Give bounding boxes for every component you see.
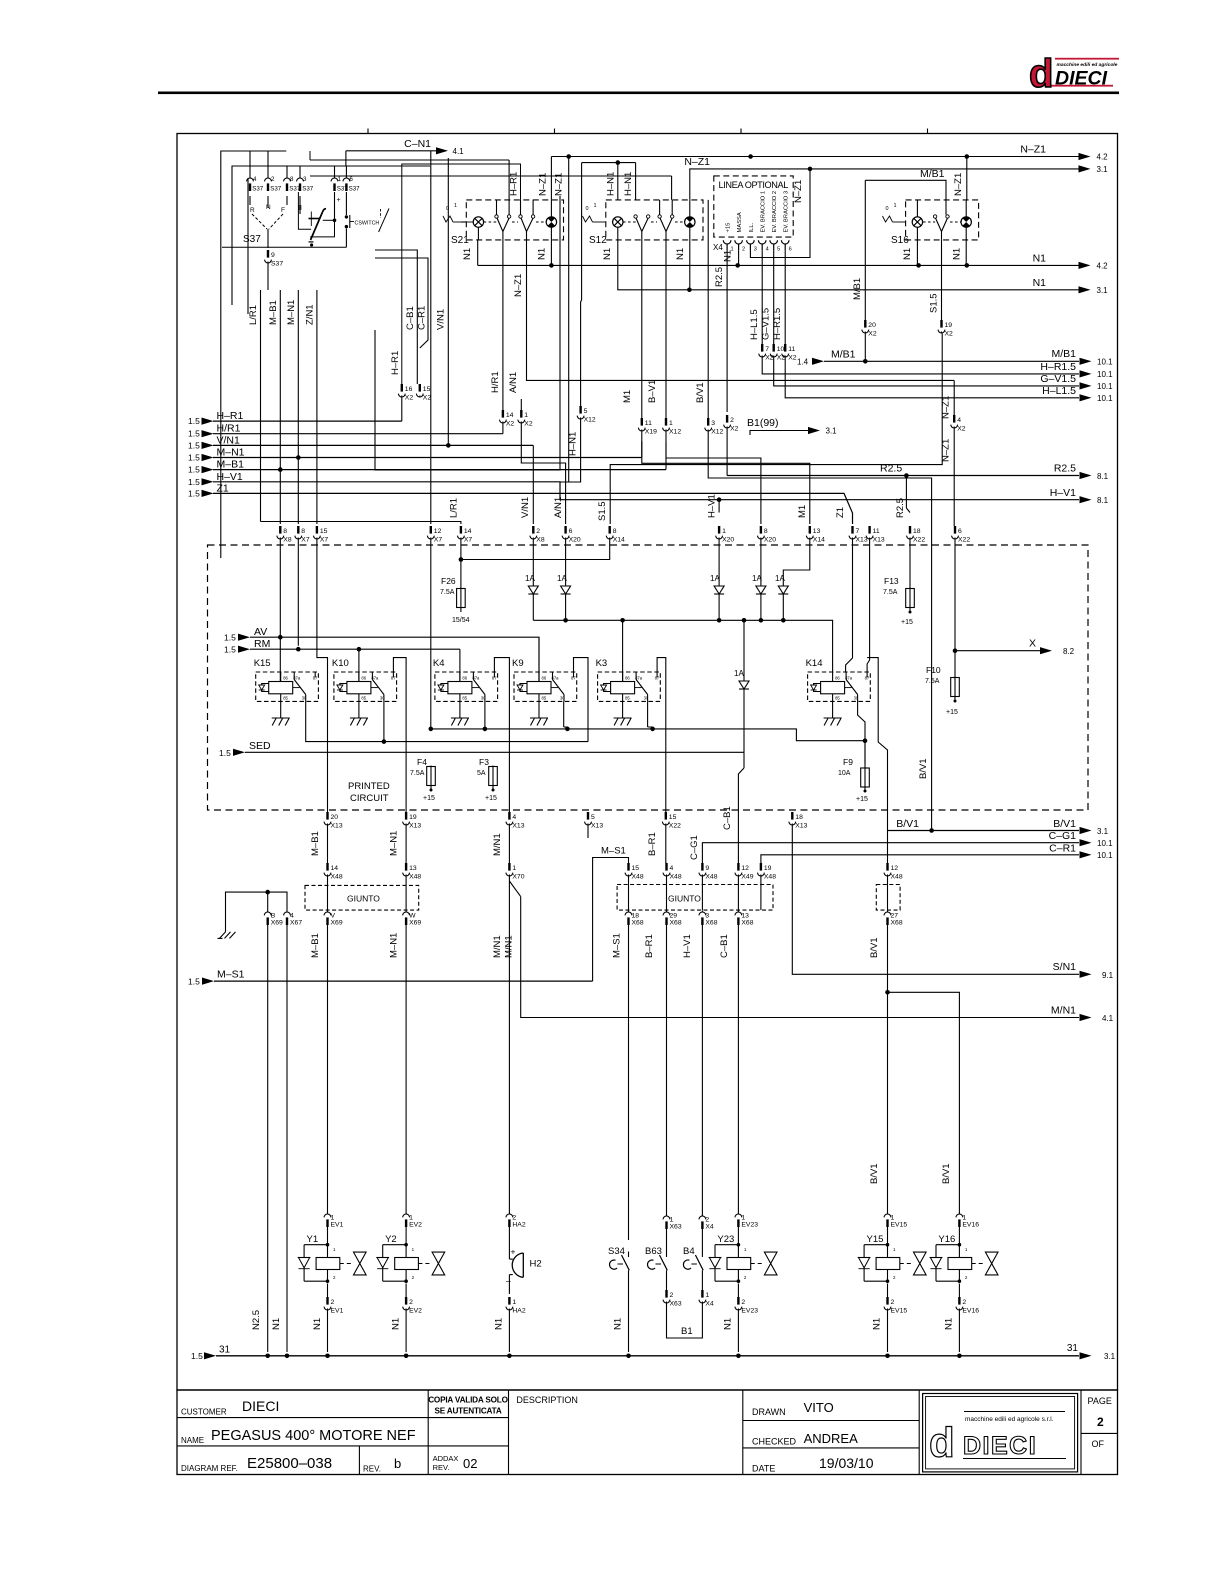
svg-text:B/V1: B/V1 <box>918 758 929 779</box>
pin 2 EV16 <box>944 1284 980 1353</box>
relay K14 <box>806 658 871 701</box>
pin 7 X13 <box>835 507 868 672</box>
svg-text:1: 1 <box>454 203 457 209</box>
svg-text:10.1: 10.1 <box>1097 370 1113 379</box>
svg-text:M–B1: M–B1 <box>217 459 245 471</box>
svg-text:2: 2 <box>891 1299 895 1306</box>
wire N1 to 4.2 <box>478 253 1108 271</box>
svg-text:B/V1: B/V1 <box>869 1163 880 1184</box>
giunto box left <box>305 885 419 910</box>
lamp unit S21 box <box>451 200 564 246</box>
svg-text:30: 30 <box>644 696 649 701</box>
svg-text:S21: S21 <box>451 235 469 246</box>
wire N-Z1 from S21 down <box>513 240 954 381</box>
svg-text:1.5: 1.5 <box>188 429 200 439</box>
svg-text:1A: 1A <box>557 574 567 583</box>
svg-text:N2.5: N2.5 <box>251 1310 262 1330</box>
svg-text:X63: X63 <box>670 1224 682 1231</box>
svg-text:+: + <box>511 1247 516 1257</box>
wire C-R1 to 10.1 <box>761 843 1113 864</box>
wire MASSA to N1 <box>723 250 739 266</box>
svg-text:X69: X69 <box>331 920 343 927</box>
ground K3 <box>614 701 632 725</box>
svg-text:4.2: 4.2 <box>1097 153 1109 162</box>
svg-text:N1: N1 <box>675 248 686 260</box>
svg-text:86: 86 <box>542 676 547 681</box>
wire C-B1 through PCB edge <box>722 752 744 863</box>
svg-text:EV15: EV15 <box>891 1222 908 1229</box>
svg-text:H–R1.5: H–R1.5 <box>772 308 783 340</box>
lever switch II/I <box>298 192 341 247</box>
pin 13 X14 <box>783 505 825 586</box>
svg-text:13: 13 <box>409 865 417 872</box>
svg-text:X7: X7 <box>301 536 310 543</box>
svg-text:1.5: 1.5 <box>191 1351 203 1361</box>
pin 18 X22 <box>895 476 925 589</box>
svg-text:X12: X12 <box>711 428 723 435</box>
wire diode output bus <box>533 618 832 682</box>
wire R2.5 from X4 pin1 <box>714 250 727 412</box>
svg-text:1: 1 <box>669 420 673 427</box>
svg-text:31: 31 <box>1067 1343 1079 1354</box>
svg-text:M1: M1 <box>797 505 808 518</box>
svg-text:M–B1: M–B1 <box>310 933 321 958</box>
relay K4 <box>433 658 498 701</box>
svg-text:2: 2 <box>705 1216 709 1223</box>
wire C-N1 riser mid <box>430 151 432 524</box>
svg-text:HA2: HA2 <box>512 1222 525 1229</box>
svg-text:+15: +15 <box>856 796 868 803</box>
svg-text:15: 15 <box>669 814 677 821</box>
svg-text:B/V1: B/V1 <box>941 1163 952 1184</box>
svg-text:N–Z1: N–Z1 <box>538 173 549 196</box>
svg-text:6: 6 <box>789 247 792 253</box>
wire N1 to 3.1 <box>617 277 1108 295</box>
svg-text:1.5: 1.5 <box>224 645 236 655</box>
svg-text:H/R1: H/R1 <box>490 371 501 393</box>
svg-text:VITO: VITO <box>804 1400 834 1415</box>
svg-text:19: 19 <box>409 814 417 821</box>
svg-text:X13: X13 <box>591 822 603 829</box>
pin 1 X12 <box>663 418 761 524</box>
pin 2 EV2 <box>391 1284 423 1353</box>
svg-text:15: 15 <box>632 865 640 872</box>
svg-text:19/03/10: 19/03/10 <box>819 1455 874 1471</box>
svg-text:18: 18 <box>795 814 803 821</box>
svg-text:A/N1: A/N1 <box>508 372 519 393</box>
wire S37 verticals to PCB <box>248 290 461 524</box>
wire B/V1 riser from X12 <box>695 382 932 830</box>
svg-text:M/N1: M/N1 <box>504 935 515 958</box>
svg-text:1: 1 <box>524 412 528 419</box>
svg-text:18: 18 <box>913 528 921 535</box>
svg-text:H–V1: H–V1 <box>1050 487 1076 499</box>
svg-text:EV15: EV15 <box>891 1307 908 1314</box>
svg-text:0: 0 <box>586 206 589 212</box>
svg-text:14: 14 <box>464 528 472 535</box>
arrow M/B1 10.1 <box>1051 348 1113 367</box>
svg-text:X48: X48 <box>331 873 343 880</box>
svg-text:7.5A: 7.5A <box>883 589 898 596</box>
svg-text:3: 3 <box>303 176 307 183</box>
svg-text:V/N1: V/N1 <box>520 497 531 518</box>
lamp S21 left <box>466 217 496 227</box>
svg-text:16: 16 <box>405 386 413 393</box>
svg-text:Y1: Y1 <box>307 1234 319 1245</box>
valve Y2 <box>376 1234 444 1283</box>
pin W X69 <box>389 911 422 1214</box>
svg-text:H–V1: H–V1 <box>217 471 243 483</box>
pin 15 X22 <box>647 812 681 863</box>
svg-text:6: 6 <box>569 528 573 535</box>
svg-text:X2: X2 <box>506 420 515 427</box>
svg-text:N1: N1 <box>462 248 473 260</box>
svg-text:1: 1 <box>409 1214 413 1221</box>
svg-text:87: 87 <box>655 676 660 681</box>
wire B/V1 riser K14 <box>867 658 887 863</box>
svg-text:7: 7 <box>856 528 860 535</box>
svg-text:X7: X7 <box>320 536 329 543</box>
svg-text:GIUNTO: GIUNTO <box>347 894 380 904</box>
pin 8 X14 <box>461 465 943 560</box>
svg-text:12: 12 <box>434 528 442 535</box>
svg-text:15: 15 <box>320 528 328 535</box>
pin 14 X48 <box>324 863 343 910</box>
lamp unit S16 box <box>891 200 979 246</box>
pin 1 X70 <box>506 863 525 1213</box>
svg-text:M–S1: M–S1 <box>601 846 626 857</box>
svg-text:M–N1: M–N1 <box>389 831 400 856</box>
pin 13 X68 <box>719 911 754 1214</box>
pin 4 X67 <box>271 911 302 1353</box>
diode 1A a <box>525 574 538 620</box>
svg-text:X8: X8 <box>536 536 545 543</box>
svg-text:5A: 5A <box>477 770 486 777</box>
wire S1.5 from S16 <box>929 240 942 320</box>
svg-text:M–N1: M–N1 <box>389 933 400 958</box>
svg-text:DRAWN: DRAWN <box>752 1407 786 1417</box>
bus V/N1 <box>188 434 533 524</box>
svg-text:CIRCUIT: CIRCUIT <box>350 793 389 804</box>
svg-text:0: 0 <box>886 206 889 212</box>
svg-text:14: 14 <box>331 865 339 872</box>
svg-text:19: 19 <box>945 322 953 329</box>
pin 11 X2 <box>782 344 1079 398</box>
svg-text:2: 2 <box>742 247 745 253</box>
svg-text:X8: X8 <box>283 536 292 543</box>
svg-text:Y16: Y16 <box>938 1234 955 1245</box>
svg-text:8: 8 <box>764 528 768 535</box>
svg-text:5: 5 <box>591 814 595 821</box>
svg-text:31: 31 <box>219 1345 231 1356</box>
svg-text:20: 20 <box>868 322 876 329</box>
svg-text:X68: X68 <box>632 920 644 927</box>
svg-text:M/B1: M/B1 <box>852 278 863 300</box>
svg-text:B: B <box>271 912 276 919</box>
svg-text:DIAGRAM REF.: DIAGRAM REF. <box>181 1464 238 1473</box>
svg-text:9: 9 <box>705 865 709 872</box>
svg-text:30: 30 <box>560 696 565 701</box>
wire M1 from S12 <box>622 240 642 418</box>
bus H-V1 to 8.1 <box>188 471 1109 505</box>
svg-text:87: 87 <box>313 676 318 681</box>
pin 8 X20 <box>758 526 777 586</box>
pin 7 X2 <box>759 344 1079 374</box>
svg-text:X69: X69 <box>271 920 283 927</box>
pin 2 X63 <box>663 1290 682 1318</box>
svg-text:1.5: 1.5 <box>188 477 200 487</box>
svg-text:1A: 1A <box>525 574 535 583</box>
svg-text:2: 2 <box>670 1292 674 1299</box>
valve Y16 <box>930 1234 998 1283</box>
svg-text:C–G1: C–G1 <box>689 835 700 860</box>
switch S16 <box>883 203 906 222</box>
svg-text:8: 8 <box>613 528 617 535</box>
svg-text:+15: +15 <box>423 795 435 802</box>
wires EV BRACCIO down to X2 <box>762 250 785 344</box>
svg-text:4: 4 <box>957 417 961 424</box>
pin 11 X19 <box>638 418 809 524</box>
svg-text:DIECI: DIECI <box>242 1398 279 1414</box>
svg-text:ILL.: ILL. <box>749 222 755 232</box>
svg-text:87a: 87a <box>293 676 301 681</box>
connector X4 pins <box>713 240 792 252</box>
svg-text:87a: 87a <box>472 676 480 681</box>
svg-text:N1: N1 <box>494 1318 505 1330</box>
svg-text:NAME: NAME <box>181 1436 204 1445</box>
svg-text:N–Z1: N–Z1 <box>684 156 710 168</box>
svg-text:B–V1: B–V1 <box>647 380 658 403</box>
pin 2 EV15 <box>872 1284 908 1353</box>
svg-text:10: 10 <box>777 346 785 353</box>
wire H-R1 riser to S21 <box>390 164 521 388</box>
svg-text:RM: RM <box>254 638 270 650</box>
rotary switch S37 <box>243 196 300 248</box>
pin 29 X68 <box>644 911 682 1217</box>
svg-text:X63: X63 <box>670 1300 682 1307</box>
relay K9 <box>512 658 577 701</box>
DIECI logo top right <box>1029 52 1119 96</box>
svg-text:3.1: 3.1 <box>826 427 838 436</box>
svg-text:B1(99): B1(99) <box>747 417 779 429</box>
svg-text:N1: N1 <box>723 1318 734 1330</box>
bus H/R1 <box>188 423 503 439</box>
svg-text:EV23: EV23 <box>741 1222 758 1229</box>
svg-text:X48: X48 <box>632 873 644 880</box>
svg-text:29: 29 <box>670 912 678 919</box>
svg-text:SED: SED <box>249 740 271 752</box>
ground K15 <box>272 701 290 725</box>
pin 2 X4 <box>699 1215 714 1252</box>
pin 11 X13 <box>866 526 885 672</box>
svg-text:15: 15 <box>423 386 431 393</box>
svg-text:X20: X20 <box>722 536 734 543</box>
svg-text:2: 2 <box>962 1299 966 1306</box>
bus M-N1 <box>188 442 642 463</box>
svg-text:V: V <box>331 912 336 919</box>
wire N-Z1 to 4.2 <box>551 144 1108 162</box>
svg-text:10.1: 10.1 <box>1097 394 1113 403</box>
svg-text:N–Z1: N–Z1 <box>1020 144 1046 156</box>
svg-text:DESCRIPTION: DESCRIPTION <box>516 1395 578 1405</box>
svg-text:EV23: EV23 <box>741 1307 758 1314</box>
fuse F13 <box>883 576 914 626</box>
svg-text:X2: X2 <box>524 420 533 427</box>
wire ILL to N-Z1 <box>750 169 810 258</box>
arrow S/N1 9.1 <box>1053 961 1114 980</box>
svg-text:H/R1: H/R1 <box>217 423 241 435</box>
svg-text:2: 2 <box>512 1214 516 1221</box>
svg-text:EV1: EV1 <box>331 1222 344 1229</box>
pin B X69 <box>251 911 283 1353</box>
svg-text:1A: 1A <box>734 669 744 678</box>
svg-text:X13: X13 <box>873 536 885 543</box>
pin 1 X4 <box>699 1290 714 1318</box>
svg-text:H–R1: H–R1 <box>509 172 520 196</box>
svg-text:K14: K14 <box>806 658 823 669</box>
svg-text:4: 4 <box>290 912 294 919</box>
wire K9 87 loop <box>574 658 589 742</box>
fuse F10 <box>925 665 959 716</box>
svg-text:X22: X22 <box>669 822 681 829</box>
svg-text:02: 02 <box>463 1456 477 1471</box>
contact pair S12 a <box>634 215 650 240</box>
svg-text:8.2: 8.2 <box>1063 647 1075 656</box>
wires S12 to N1 <box>602 227 690 290</box>
pin 2 X2 <box>724 415 739 476</box>
svg-text:HA2: HA2 <box>512 1307 525 1314</box>
pin 1 X63 <box>663 1215 682 1252</box>
svg-text:1.5: 1.5 <box>219 748 231 758</box>
wire M/B1 at S16 <box>852 168 946 320</box>
svg-text:X2: X2 <box>765 354 774 361</box>
svg-text:REV.: REV. <box>363 1465 381 1474</box>
svg-text:N1: N1 <box>613 1318 624 1330</box>
svg-text:N1: N1 <box>902 248 913 260</box>
relay K15 <box>254 658 319 701</box>
svg-text:X49: X49 <box>741 873 753 880</box>
svg-text:1: 1 <box>512 1299 516 1306</box>
svg-text:19: 19 <box>764 865 772 872</box>
svg-text:K4: K4 <box>433 658 445 669</box>
switch S34 <box>608 1246 629 1352</box>
svg-text:7.5A: 7.5A <box>925 678 940 685</box>
wire K4 87 loop <box>494 658 509 812</box>
wire B/V1 branch <box>869 990 959 1213</box>
svg-text:H–N1: H–N1 <box>606 172 617 196</box>
svg-text:MASSA: MASSA <box>737 212 743 232</box>
pin 1 HA2 <box>494 1278 526 1353</box>
wire K4 30 down <box>483 701 488 731</box>
svg-text:N1: N1 <box>271 1318 282 1330</box>
wire 30 collector line2 <box>306 701 588 743</box>
svg-text:M–N1: M–N1 <box>286 300 297 325</box>
svg-text:1: 1 <box>891 1214 895 1221</box>
wires S21 to N1 <box>462 227 551 265</box>
svg-text:X19: X19 <box>645 428 657 435</box>
pin 18 X68 <box>612 911 644 1241</box>
svg-text:EV2: EV2 <box>409 1307 422 1314</box>
svg-text:86: 86 <box>283 676 288 681</box>
ground K9 <box>530 701 548 725</box>
svg-text:1.5: 1.5 <box>188 440 200 450</box>
svg-text:10.1: 10.1 <box>1097 358 1113 367</box>
ground K4 <box>451 701 469 725</box>
svg-text:10A: 10A <box>838 770 851 777</box>
svg-text:2: 2 <box>1097 1415 1104 1429</box>
bus SED <box>219 740 744 758</box>
valve Y23 <box>709 1234 777 1283</box>
svg-text:30: 30 <box>380 696 385 701</box>
svg-text:K10: K10 <box>332 658 349 669</box>
svg-text:EV. BRACCIO 3: EV. BRACCIO 3 <box>784 191 790 233</box>
lamp S16 left <box>912 200 935 227</box>
svg-text:F4: F4 <box>417 757 427 767</box>
wire K10 coil feed <box>358 649 360 681</box>
page cell <box>1088 1396 1112 1449</box>
svg-text:+15: +15 <box>726 223 732 233</box>
svg-text:F: F <box>281 207 285 214</box>
svg-text:14: 14 <box>506 412 514 419</box>
diode 1A f <box>734 618 749 752</box>
pin V X69 <box>310 911 343 1214</box>
svg-text:N1: N1 <box>723 250 734 262</box>
svg-text:7.5A: 7.5A <box>410 770 425 777</box>
svg-text:N1: N1 <box>537 248 548 260</box>
svg-text:N1: N1 <box>944 1318 955 1330</box>
svg-text:1: 1 <box>962 1214 966 1221</box>
svg-text:F10: F10 <box>926 665 941 675</box>
svg-text:EV16: EV16 <box>962 1222 979 1229</box>
svg-text:B1: B1 <box>681 1326 693 1337</box>
svg-text:85: 85 <box>542 696 547 701</box>
svg-text:b: b <box>394 1456 401 1471</box>
svg-text:11: 11 <box>645 420 652 427</box>
svg-text:7.5A: 7.5A <box>440 589 455 596</box>
logo cell <box>923 1394 1078 1472</box>
svg-text:87a: 87a <box>845 676 853 681</box>
svg-text:COPIA VALIDA SOLO: COPIA VALIDA SOLO <box>428 1396 508 1405</box>
svg-text:3.1: 3.1 <box>1104 1352 1116 1361</box>
svg-text:G–V1.5: G–V1.5 <box>761 308 772 340</box>
svg-text:X48: X48 <box>891 873 903 880</box>
svg-text:B4: B4 <box>683 1246 695 1257</box>
valve Y15 <box>858 1234 926 1283</box>
bus H-R1 <box>188 398 402 427</box>
svg-text:N1: N1 <box>391 1318 402 1330</box>
svg-text:S1.5: S1.5 <box>929 293 940 313</box>
svg-text:1: 1 <box>594 203 597 209</box>
wire N-Z1 label right of LINEA <box>793 180 804 203</box>
svg-text:N1: N1 <box>602 248 613 260</box>
fuse F4 <box>410 757 435 802</box>
svg-text:12: 12 <box>891 865 899 872</box>
svg-text:F26: F26 <box>441 576 456 586</box>
svg-text:S16: S16 <box>891 235 909 246</box>
pin 1 EV15 <box>884 1213 907 1247</box>
svg-text:8.1: 8.1 <box>1097 472 1109 481</box>
ground K14 <box>824 701 842 725</box>
svg-text:L/R1: L/R1 <box>248 305 259 325</box>
svg-text:M–B1: M–B1 <box>310 831 321 856</box>
svg-text:X2: X2 <box>423 394 432 401</box>
pin 9 X48 <box>699 863 718 910</box>
svg-text:N–Z1: N–Z1 <box>953 173 964 196</box>
svg-text:N–Z1: N–Z1 <box>554 173 565 196</box>
lamp S16 right <box>950 200 971 227</box>
svg-text:1.5: 1.5 <box>188 465 200 475</box>
pin 4 X48 <box>663 863 682 910</box>
